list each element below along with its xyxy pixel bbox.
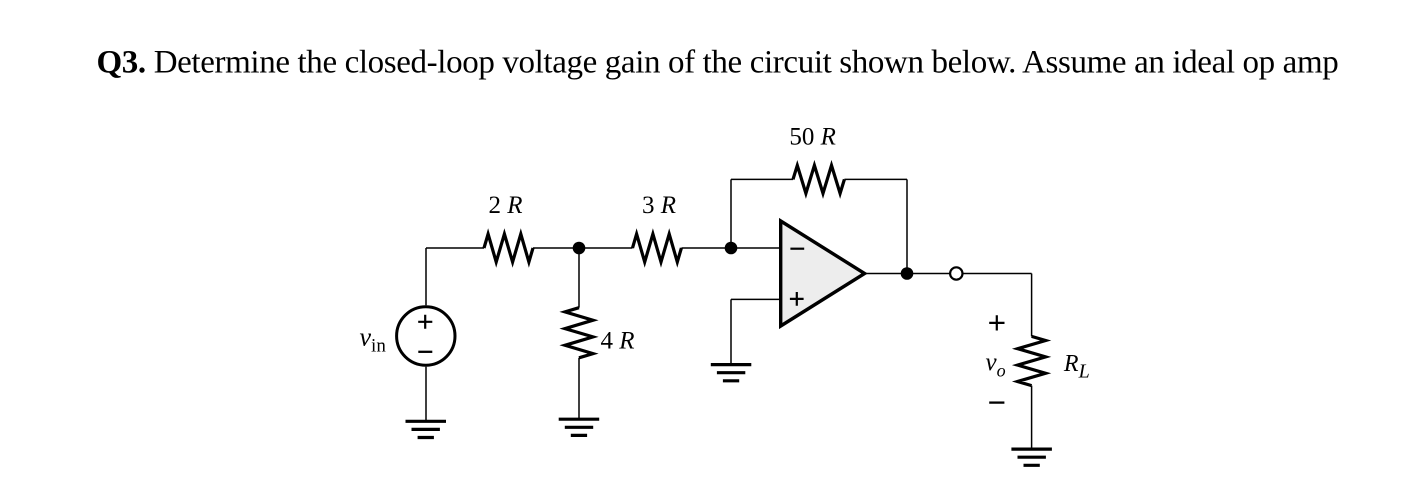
source plus sign [418,315,432,329]
svg-text:RL: RL [1063,351,1090,383]
node C output junction dot [901,267,914,280]
wire: vin top vertical [425,248,427,305]
svg-text:3 R: 3 R [642,192,676,219]
wire: op-amp output [865,273,950,275]
svg-text:2 R: 2 R [489,192,523,219]
node B junction dot [725,242,738,255]
wire: main horizontal segment 2 [533,247,633,249]
vo minus sign [989,401,1004,403]
node A junction dot [573,242,586,255]
source minus sign [418,351,432,353]
wire: terminal to RL top [963,273,1032,275]
wire: feedback top left horizontal [731,178,793,180]
op-amp plus sign (non-inverting input) [790,292,804,306]
op-amp U1 triangle [781,221,865,326]
op-amp minus sign (inverting input) [790,248,804,250]
resistor 50R [793,165,844,193]
wire: vin bottom vertical to ground [425,367,427,421]
svg-text:4 R: 4 R [601,327,635,354]
svg-text:Q3. Determine the closed-loop: Q3. Determine the closed-loop voltage ga… [97,45,1339,81]
resistor 2R [484,234,533,262]
source vin circle [397,307,455,365]
wire: node A down to 4R [578,248,580,308]
wire: RL top vertical [1031,274,1033,337]
ground G4 (under RL) [1011,449,1052,465]
vo plus sign [989,315,1004,330]
resistor RL [1018,336,1046,385]
wire: main horizontal segment 1 [426,247,484,249]
wire: feedback right vertical to output [906,179,908,273]
wire: feedback top right horizontal [844,178,907,180]
wire: main horizontal segment 3 [681,247,780,249]
wire: feedback left vertical [730,179,732,248]
ground G1 (under vin) [406,421,447,437]
wire: non-inverting down to ground [730,299,732,364]
output terminal open circle [950,267,962,279]
svg-text:vin: vin [360,323,387,357]
svg-text:vo: vo [986,349,1006,381]
resistor 3R [633,234,682,262]
resistor 4R [565,308,593,358]
wire: RL to ground [1031,386,1033,449]
wire: 4R to ground [578,358,580,419]
ground G2 (under 4R) [559,419,600,435]
wire: non-inverting input horizontal [731,298,781,300]
ground G3 (op-amp + input) [711,365,752,381]
svg-text:50 R: 50 R [789,123,836,150]
